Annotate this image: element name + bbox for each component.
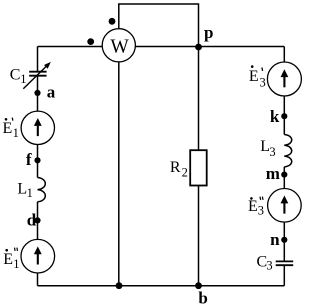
svg-text:1: 1 — [27, 186, 33, 200]
label R2 — [170, 159, 188, 179]
svg-text:3: 3 — [258, 204, 264, 218]
svg-text:a: a — [47, 82, 56, 101]
svg-text:n: n — [270, 230, 280, 249]
svg-text:E: E — [3, 120, 13, 137]
source E3'' arrow — [281, 196, 289, 214]
capacitor C1 adjustment arrow — [23, 62, 51, 89]
svg-text:E: E — [249, 68, 259, 85]
wire E3' to L3 through node k — [283, 96, 285, 135]
node f — [26, 150, 41, 169]
svg-text:1: 1 — [13, 126, 19, 140]
source E1' circle — [21, 111, 54, 144]
svg-text:3: 3 — [266, 259, 272, 273]
source E3' arrow — [281, 69, 289, 87]
label C1 — [10, 67, 27, 86]
label L1 — [17, 180, 32, 200]
svg-text:k: k — [270, 107, 280, 126]
svg-text:m: m — [266, 164, 280, 183]
capacitor C1 (variable) plates — [29, 72, 46, 76]
wattmeter polarity dot on current coil — [87, 38, 94, 45]
svg-text:1: 1 — [13, 257, 19, 271]
source E3'' circle — [268, 189, 302, 223]
svg-text:1: 1 — [20, 72, 26, 86]
wire E3'' to C3 through node n — [283, 222, 285, 261]
resistor R2 — [190, 150, 207, 185]
wire L3 to E3'' through node m — [283, 167, 285, 189]
wire bottom rail — [38, 285, 285, 287]
svg-text:d: d — [27, 211, 37, 230]
wire E1' to L1 through node f — [37, 145, 39, 178]
svg-text:f: f — [26, 150, 32, 169]
inductor L3 coil — [284, 135, 291, 167]
svg-text:W: W — [110, 37, 129, 58]
wattmeter polarity dot on voltage coil — [109, 18, 116, 25]
source E1'' circle — [21, 239, 55, 273]
label E1'' — [3, 248, 19, 271]
capacitor C3 plates — [276, 261, 294, 265]
node d — [27, 211, 41, 230]
svg-text:2: 2 — [182, 165, 188, 179]
label E1' — [3, 118, 19, 140]
source E1'' arrow — [34, 246, 42, 264]
wire E1'' bottom to bottom rail — [37, 273, 39, 286]
svg-text:3: 3 — [260, 75, 266, 89]
node p — [195, 23, 213, 50]
label C3 — [257, 253, 273, 272]
svg-text:C: C — [10, 67, 21, 84]
junction dot wattmeter branch on bottom rail — [116, 282, 123, 289]
svg-text:E: E — [248, 198, 258, 215]
wire C1 to E1' through node a — [37, 76, 39, 112]
svg-text:E: E — [3, 251, 13, 268]
wire wattmeter bottom branch down to bottom rail — [118, 62, 120, 286]
source E1' arrow — [34, 118, 42, 136]
source E3' circle — [267, 62, 301, 96]
node a — [34, 82, 55, 101]
wire right branch top to E3' — [283, 47, 285, 63]
label L3 — [260, 138, 275, 159]
node m — [266, 164, 288, 183]
wire wattmeter voltage-coil loop from W top to node p — [119, 4, 199, 47]
svg-text:3: 3 — [269, 145, 275, 159]
wire R2 down to node b — [198, 186, 200, 286]
node b — [195, 282, 208, 306]
wire left branch top to C1 — [37, 47, 39, 72]
wire C3 to bottom rail — [283, 265, 285, 286]
wire top right segment from wattmeter through node p to right branch — [135, 46, 284, 48]
wire top left segment from left branch to wattmeter — [38, 46, 103, 48]
svg-text:b: b — [198, 289, 207, 306]
inductor L1 coil — [38, 178, 46, 202]
wire node p down to R2 — [198, 47, 200, 150]
wattmeter W circle — [102, 29, 135, 62]
node n — [270, 230, 287, 249]
node k — [270, 107, 288, 126]
svg-text:p: p — [204, 23, 213, 42]
wire L1 to E1'' through node d — [37, 202, 39, 240]
svg-text:R: R — [170, 159, 181, 176]
label E3' — [249, 65, 266, 89]
label E3'' — [248, 197, 264, 218]
